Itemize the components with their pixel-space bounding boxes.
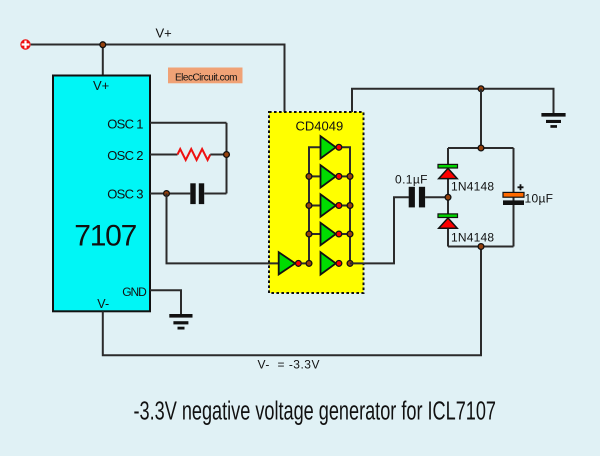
- inverter U1E (row5): [321, 252, 342, 274]
- svg-text:10µF: 10µF: [525, 191, 554, 205]
- wire V- rail: [103, 247, 481, 356]
- inverter U1B (row2): [321, 165, 342, 187]
- wire GND pin: [150, 290, 181, 314]
- label + (C3 polarity): [518, 184, 524, 190]
- wire bridge bottom rail: [448, 246, 514, 248]
- IC CD4049 body (dashed box): [269, 112, 364, 293]
- svg-text:GND: GND: [122, 285, 147, 299]
- wire V+ pin to 7107: [102, 45, 104, 77]
- wire vertical OSC1-OSC2-OSC3 link: [226, 123, 228, 194]
- node top junction: [478, 86, 484, 92]
- wire junction down to bridge: [480, 89, 482, 148]
- ground (7107 GND): [169, 314, 192, 330]
- wire output stub row4: [342, 233, 350, 235]
- wire CD4049 output top pin to ground: [352, 89, 554, 114]
- terminal + (V+ input): [20, 39, 30, 49]
- svg-text:OSC 2: OSC 2: [107, 148, 143, 163]
- capacitor C1 (OSC pins): [190, 183, 204, 204]
- wire input stub row2: [309, 175, 321, 177]
- svg-text:ElecCircuit.com: ElecCircuit.com: [175, 72, 238, 83]
- svg-text:V+: V+: [156, 26, 172, 41]
- node diode mid: [445, 194, 451, 200]
- svg-text:1N4148: 1N4148: [451, 231, 494, 245]
- diode D2 1N4148: [438, 214, 458, 228]
- wire V+ rail: [31, 45, 285, 113]
- wire capacitor branch (right): [513, 148, 515, 247]
- wire input rail (CD4049 left): [309, 147, 321, 263]
- wire input stub row4: [309, 233, 321, 235]
- wire capacitor to node: [204, 193, 226, 195]
- ground (top right): [541, 113, 565, 128]
- svg-text:V+: V+: [93, 78, 109, 93]
- inverter U1C (row3): [321, 194, 342, 216]
- wire OSC1: [150, 122, 227, 124]
- node resistor/OSC1 junction: [224, 152, 230, 158]
- wire output rail (CD4049 right): [342, 147, 350, 263]
- wire OSC3 to CD4049 input: [167, 194, 279, 264]
- svg-text:1N4148: 1N4148: [451, 180, 494, 194]
- wire OSC3 to capacitor: [150, 193, 190, 195]
- wire output stub row2: [342, 175, 350, 177]
- svg-text:OSC 1: OSC 1: [107, 117, 143, 132]
- svg-text:V- = -3.3V: V- = -3.3V: [258, 358, 320, 372]
- svg-text:0.1µF: 0.1µF: [395, 172, 428, 186]
- svg-text:OSC 3: OSC 3: [107, 187, 143, 202]
- capacitor C2 0.1uF: [409, 187, 425, 208]
- wire diode branch (left): [447, 148, 449, 247]
- svg-text:CD4049: CD4049: [296, 118, 344, 133]
- resistor (red zigzag): [178, 149, 211, 160]
- wire OSC2 to resistor: [150, 154, 178, 156]
- node junction on V+ rail: [100, 42, 106, 48]
- svg-text:7107: 7107: [74, 219, 137, 252]
- node OSC3 junction: [164, 191, 170, 197]
- svg-text:-3.3V negative voltage generat: -3.3V negative voltage generator for ICL…: [134, 398, 497, 426]
- wire bridge top rail: [448, 147, 514, 149]
- wire 0.1uF to diode node: [425, 196, 448, 198]
- node bridge top: [478, 145, 484, 151]
- inverter U1F (left, row5): [279, 252, 309, 274]
- IC 7107 body: [53, 76, 150, 312]
- node input rail dots: [306, 174, 312, 180]
- inverter U1A (row1): [321, 136, 342, 158]
- wire input stub row3: [309, 205, 321, 207]
- wire output stub row3: [342, 205, 350, 207]
- svg-text:V-: V-: [97, 297, 109, 311]
- node bridge bottom: [478, 244, 484, 250]
- inverter U1D (row4): [321, 223, 342, 245]
- diode D1 1N4148: [438, 164, 458, 178]
- badge ElecCircuit.com: [168, 68, 243, 84]
- capacitor C3 10uF (polarized): [503, 192, 524, 205]
- wire resistor to node: [210, 154, 226, 156]
- node output rail dots: [347, 174, 353, 180]
- wire CD4049 output to 0.1uF: [350, 197, 409, 263]
